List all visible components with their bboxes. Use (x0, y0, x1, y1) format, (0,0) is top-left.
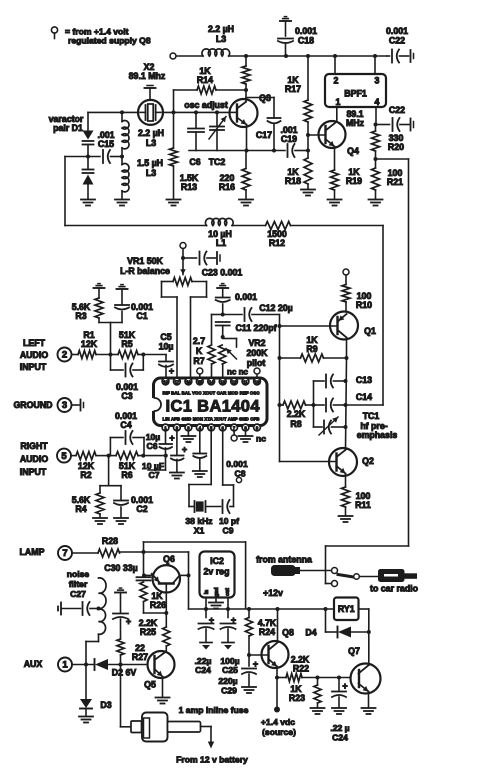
label Q5 (144, 680, 156, 690)
wire BPF pin2 (334, 56, 336, 74)
node pin1 audio (164, 454, 168, 458)
svg-text:out: out (225, 588, 231, 596)
svg-text:11: 11 (243, 379, 248, 384)
wire C13 bus (313, 381, 315, 427)
svg-text:R25: R25 (140, 627, 156, 637)
svg-text:INPUT: INPUT (20, 362, 47, 372)
resistor R17 (304, 56, 312, 151)
svg-text:+1.4 vdc: +1.4 vdc (261, 717, 295, 727)
node coil column (120, 110, 124, 114)
node relay branch (324, 607, 328, 611)
svg-text:nc nc: nc nc (227, 368, 248, 377)
svg-text:C6: C6 (189, 157, 200, 167)
svg-text:7: 7 (62, 548, 67, 559)
terminal 5 right audio (57, 449, 71, 463)
svg-text:+: + (169, 366, 174, 376)
ground-up C1 (117, 285, 128, 305)
svg-text:R13: R13 (181, 182, 197, 192)
svg-text:18: 18 (163, 379, 168, 384)
label C22 (output) (389, 105, 405, 115)
svg-text:C5: C5 (160, 332, 171, 342)
label 1.5K R13 (180, 173, 199, 192)
svg-text:C13: C13 (356, 375, 372, 385)
node R16 top (245, 149, 249, 153)
svg-text:38 kHz: 38 kHz (185, 516, 212, 526)
node Q6 collector (187, 573, 191, 577)
fuse holder (131, 713, 201, 742)
capacitor C24 (reg in) (199, 609, 215, 642)
label 1K R26 (150, 591, 166, 610)
label 2.2K R25 (139, 618, 158, 637)
label RIGHT AUDIO INPUT (20, 441, 49, 477)
resistor R28 (72, 549, 144, 557)
wire 12v rail (189, 608, 335, 610)
node R9 left (278, 356, 282, 360)
wire Q1 bias line (279, 326, 281, 462)
node BPF pin3 rail (373, 54, 377, 58)
svg-text:R19: R19 (346, 176, 362, 186)
svg-text:R7: R7 (193, 356, 204, 366)
label 0.001 C4 (115, 411, 137, 430)
svg-text:IC1 BA1404: IC1 BA1404 (166, 398, 261, 416)
ground-up R27 chain (115, 588, 126, 613)
svg-text:R3: R3 (75, 311, 86, 321)
label LEFT AUDIO INPUT (20, 338, 49, 372)
capacitor C6 (osc) (188, 112, 204, 150)
label C5 10u (159, 332, 174, 352)
resistor R10 (342, 285, 350, 312)
label 51K R5 (119, 330, 136, 349)
capacitor 0.001 (pilot) (216, 298, 230, 315)
svg-text:L1: L1 (216, 238, 226, 248)
svg-text:in: in (204, 590, 210, 594)
label 38kHz X1 (185, 516, 212, 536)
wire to fuse (121, 665, 132, 727)
terminal 7 lamp (58, 546, 72, 560)
ground R13 (167, 200, 181, 206)
wire osc lower rail (189, 150, 285, 152)
label GROUND (13, 400, 52, 410)
node L3/R14 (244, 54, 248, 58)
resistor R16 (242, 151, 250, 200)
label C14 (356, 392, 372, 402)
svg-text:2: 2 (334, 76, 339, 86)
label D3 (100, 700, 111, 710)
label 100 R21 (387, 168, 403, 187)
svg-text:Q7: Q7 (348, 646, 360, 656)
stub C23 end (217, 252, 220, 264)
svg-text:L3: L3 (146, 138, 156, 148)
svg-text:LIN AFB GND MON XTA XOUT AMP G: LIN AFB GND MON XTA XOUT AMP GND OFB (163, 417, 260, 422)
label +12v (263, 588, 283, 598)
label R28 (102, 536, 118, 546)
svg-text:R27: R27 (132, 652, 148, 662)
svg-text:C22: C22 (389, 36, 405, 46)
svg-text:TC1: TC1 (363, 411, 380, 421)
node C19/R18 (306, 149, 310, 153)
wire osc rail (88, 111, 230, 113)
label 100 R10 (356, 291, 372, 310)
svg-text:R23: R23 (289, 693, 305, 703)
resistor R3 (95, 298, 103, 323)
svg-text:to car radio: to car radio (370, 584, 419, 594)
antenna plug (272, 566, 332, 576)
svg-text:2.2 µH: 2.2 µH (138, 128, 164, 138)
capacitor C29 220u (242, 655, 258, 687)
wire R4/C2 bar (100, 456, 121, 486)
node Q8 collector (276, 607, 280, 611)
svg-text:R26: R26 (150, 600, 166, 610)
svg-text:R12: R12 (269, 238, 285, 248)
svg-text:220µ: 220µ (218, 676, 237, 686)
svg-text:C15: C15 (98, 139, 114, 149)
svg-text:0.001: 0.001 (226, 459, 248, 469)
svg-text:10: 10 (255, 379, 260, 384)
svg-text:89.1 Mhz: 89.1 Mhz (129, 71, 166, 81)
ground R19 (328, 200, 342, 206)
node R14 (244, 88, 248, 92)
node Q4 base (306, 133, 310, 137)
svg-text:Q1: Q1 (364, 326, 376, 336)
svg-text:Q4: Q4 (347, 146, 359, 156)
svg-text:noise: noise (67, 569, 90, 579)
wire R22 to Q7 (318, 677, 351, 679)
ground-up pilot cap (217, 284, 228, 297)
label 12K R2 (78, 461, 95, 480)
label nc nc (227, 368, 248, 377)
svg-text:C3: C3 (121, 391, 132, 401)
crystal X2 (138, 100, 163, 125)
wire aux drop (85, 642, 87, 665)
svg-text:R2: R2 (80, 470, 91, 480)
label Q1 (364, 326, 376, 336)
label 0.001 C18 (295, 26, 317, 46)
svg-text:R20: R20 (388, 142, 404, 152)
ground pin8 (239, 431, 253, 442)
wire RY1 out (359, 609, 369, 632)
capacitor C22 (top) (387, 50, 409, 63)
switch contact upper (332, 568, 338, 574)
node Q6 base (164, 611, 168, 615)
svg-text:C11 220pf: C11 220pf (235, 323, 276, 333)
ground R4 (93, 518, 107, 524)
wire Q7 collector (368, 632, 370, 665)
diode D2 (95, 659, 148, 670)
resistor R7 (208, 315, 215, 379)
wire mid rail 2 (232, 225, 265, 227)
resistor R20 (372, 125, 380, 160)
ground IC2 (209, 603, 223, 609)
node tank mid (120, 155, 124, 159)
supply terminal (top rail) (170, 53, 203, 59)
svg-text:R17: R17 (285, 84, 301, 94)
svg-text:C24: C24 (332, 733, 348, 743)
potentiometer VR1 (162, 258, 207, 377)
svg-text:2.2K: 2.2K (287, 409, 306, 419)
arrow-ground C24 (200, 643, 212, 650)
svg-text:from antenna: from antenna (256, 555, 312, 565)
label 1.5uH L3 (137, 158, 163, 178)
wire Q8 emitter (276, 667, 278, 678)
label 220u C29 (218, 676, 237, 696)
svg-text:C29: C29 (221, 686, 237, 696)
capacitor C3 bypass loop (111, 355, 144, 377)
capacitor C8 (pin4) (193, 431, 206, 471)
legend text (65, 27, 151, 46)
svg-text:2.7: 2.7 (193, 336, 205, 346)
transistor Q2 (280, 448, 358, 476)
capacitor C19 (288, 144, 309, 157)
ground R18 (301, 190, 315, 196)
resistor R2 (71, 452, 109, 460)
ground C2 (114, 518, 128, 524)
node BPF pin2 rail (333, 54, 337, 58)
resistor R26 (140, 582, 166, 613)
capacitor C18 (278, 39, 293, 57)
label C30 33u (104, 563, 137, 573)
node pilot (221, 313, 225, 317)
node D4/Q7 (367, 630, 371, 634)
resistor R24 4.7K (245, 609, 252, 655)
node right audio junction (107, 454, 111, 458)
label 1K R18 (285, 167, 301, 186)
svg-text:(source): (source) (262, 727, 296, 737)
node Q1 base (278, 324, 282, 328)
resistor R21 (372, 159, 380, 199)
capacitor C15 (65, 150, 122, 163)
label AUX (24, 659, 43, 669)
label 2.2K R22 (291, 655, 310, 674)
svg-text:VR1 50K: VR1 50K (127, 256, 163, 266)
ground pin3 (181, 431, 195, 442)
label C17 (256, 130, 272, 140)
label 0.001 (pilot) (235, 292, 257, 302)
inductor noise choke (86, 578, 106, 642)
resistor R23 1K (314, 678, 321, 708)
wire Q1 emitter bus (346, 358, 347, 449)
terminal VR1 wiper (180, 243, 186, 259)
label 1K R23 (289, 684, 305, 703)
label 1K R17 (285, 75, 301, 94)
svg-text:R8: R8 (290, 419, 301, 429)
svg-text:1.5 µH: 1.5 µH (137, 158, 163, 168)
resistor R11 (342, 474, 350, 516)
svg-text:14: 14 (209, 379, 214, 384)
resistor R14 (174, 86, 247, 94)
terminal 1 aux (58, 658, 72, 672)
svg-text:C25: C25 (222, 665, 238, 675)
svg-text:16: 16 (186, 379, 191, 384)
varactor D1a (83, 112, 94, 156)
resistor R19 (331, 147, 339, 200)
svg-text:C18: C18 (298, 36, 314, 46)
svg-text:C27: C27 (70, 589, 86, 599)
node IC2 out (226, 607, 230, 611)
label 100 R11 (355, 491, 371, 510)
svg-text:Q6: Q6 (163, 554, 175, 564)
label 220 R16 (219, 173, 235, 192)
label TC1 hf pre-emphasis (357, 411, 398, 440)
label 10u C6 (pin1) (146, 432, 161, 451)
wire pin10 terminal (254, 368, 260, 378)
ground stub above X2 (145, 86, 156, 101)
svg-text:1: 1 (336, 97, 341, 107)
label 4.7K R24 (258, 618, 277, 637)
resistor R18 (304, 151, 312, 190)
tap +1.4vdc (274, 707, 280, 713)
ground-up C18 (280, 17, 291, 36)
label .22u C24 (195, 656, 212, 675)
wire fuse out (201, 727, 212, 742)
label 1K R14 (197, 66, 213, 85)
terminal small (236, 477, 241, 482)
capacitor C1 (115, 305, 129, 323)
node IC2 in (204, 607, 208, 611)
diode D4 (338, 627, 369, 638)
svg-text:17: 17 (175, 379, 180, 384)
terminal pin7 (231, 431, 237, 441)
wire pin6 to C9 (223, 431, 234, 507)
svg-text:D2 6V: D2 6V (112, 668, 137, 678)
label Q4 (347, 146, 359, 156)
inductor L3 2.2uH (top) (202, 49, 230, 56)
ground C8 (193, 471, 207, 477)
wire 12v drop (188, 552, 190, 609)
svg-text:From 12 v battery: From 12 v battery (176, 755, 248, 765)
node C6 stub (194, 110, 198, 114)
svg-text:C7: C7 (149, 470, 160, 480)
svg-text:10 pf: 10 pf (219, 516, 239, 526)
arrow-ground C25 (222, 643, 234, 650)
node varactor mid (86, 155, 90, 159)
wire Q4 collector (336, 107, 338, 122)
wire to car plug (359, 576, 378, 578)
svg-text:+12v: +12v (263, 588, 283, 598)
inductor L3 1.5uH (tank) (122, 164, 129, 199)
transistor Q3 (230, 99, 258, 127)
svg-text:RIGHT: RIGHT (20, 441, 48, 451)
svg-text:1 amp inline fuse: 1 amp inline fuse (179, 705, 249, 715)
svg-text:L3: L3 (216, 34, 226, 44)
svg-text:+: + (126, 617, 131, 627)
svg-text:.22 µ: .22 µ (330, 723, 349, 733)
switch contact lower (326, 581, 338, 587)
terminal 3 ground (58, 398, 72, 412)
svg-text:1: 1 (62, 660, 68, 671)
label 22 R27 (132, 643, 148, 662)
transistor Q1 (PNP) (280, 312, 359, 340)
wire Q8 collector (277, 609, 279, 643)
label C6 TC2 (189, 157, 225, 167)
svg-text:AUDIO: AUDIO (20, 350, 49, 360)
resistor R9 (280, 354, 347, 362)
svg-text:BPF1: BPF1 (344, 89, 367, 99)
svg-text:C6: C6 (147, 441, 158, 451)
wire pilot left (212, 314, 223, 316)
label 2.2uH L3 (tank) (138, 128, 164, 148)
wire RF output right side (326, 159, 409, 584)
wire VR2 elbow (223, 339, 237, 348)
svg-text:10µ: 10µ (159, 342, 174, 352)
svg-text:13: 13 (220, 379, 225, 384)
output stub (top C22) (411, 50, 414, 62)
ground R21 (369, 200, 383, 206)
wire left frame (64, 157, 66, 226)
potentiometer VR2 (219, 345, 237, 378)
svg-text:pair D1: pair D1 (53, 123, 83, 133)
svg-text:VR2: VR2 (248, 338, 265, 348)
capacitor C30 33u (137, 552, 151, 580)
svg-text:C17: C17 (256, 130, 272, 140)
svg-text:C2: C2 (136, 504, 147, 514)
svg-text:0.001: 0.001 (235, 292, 257, 302)
label 89.1 MHz (346, 109, 365, 128)
capacitor above R27 (113, 614, 131, 640)
node R8 right (312, 403, 316, 407)
node TC1 (344, 425, 348, 429)
svg-text:K: K (196, 346, 203, 356)
svg-text:C9: C9 (223, 526, 234, 536)
resistor R13 (170, 112, 178, 199)
resistor R4 (96, 486, 104, 518)
label .22u C24 (Q7) (330, 723, 349, 743)
transistor Q6 (PNP, base down) (144, 565, 189, 592)
svg-text:C30 33µ: C30 33µ (104, 563, 137, 573)
arrow to battery (208, 742, 214, 749)
label LAMP (20, 547, 45, 557)
output stub (C22) (411, 119, 414, 131)
capacitor C11 (216, 322, 230, 337)
svg-text:R6: R6 (121, 470, 132, 480)
resistor (vertical, R14 column) (242, 56, 250, 90)
node R6 out (141, 454, 145, 458)
node left audio junction (109, 353, 113, 357)
svg-text:+: + (253, 659, 258, 669)
svg-text:12: 12 (232, 379, 237, 384)
node R28 out (142, 550, 146, 554)
svg-text:R4: R4 (75, 504, 86, 514)
svg-text:Q2: Q2 (362, 456, 374, 466)
node aux x86 (84, 663, 88, 667)
label 10uF C7 (142, 461, 164, 480)
label VR1 50K (120, 256, 170, 276)
resistor R25 (163, 613, 170, 651)
wire top rail (229, 55, 387, 57)
inductor L3 2.2uH (tank) (122, 112, 129, 148)
svg-text:Q8: Q8 (282, 628, 294, 638)
node R23 top (316, 676, 320, 680)
node R27 bottom (119, 663, 123, 667)
capacitor C5 (159, 362, 174, 379)
svg-text:MHz: MHz (346, 118, 365, 128)
capacitor C13 (314, 375, 346, 388)
car radio plug (379, 570, 417, 582)
label from antenna (256, 555, 312, 565)
svg-text:C23 0.001: C23 0.001 (202, 268, 243, 278)
voltage regulator IC2 (200, 552, 235, 598)
label 2.2K R8 (287, 409, 306, 429)
label 10pf C9 (219, 516, 239, 536)
label Q3 (259, 93, 271, 103)
capacitor C4 loop (110, 431, 144, 456)
svg-text:+: + (182, 445, 187, 455)
resistor R22 2.2K (277, 674, 318, 682)
svg-text:+: + (169, 433, 174, 443)
svg-text:R28: R28 (102, 536, 118, 546)
node C13 (344, 379, 348, 383)
node Q6 emitter wire (142, 573, 146, 577)
ground Q5 (156, 698, 170, 704)
